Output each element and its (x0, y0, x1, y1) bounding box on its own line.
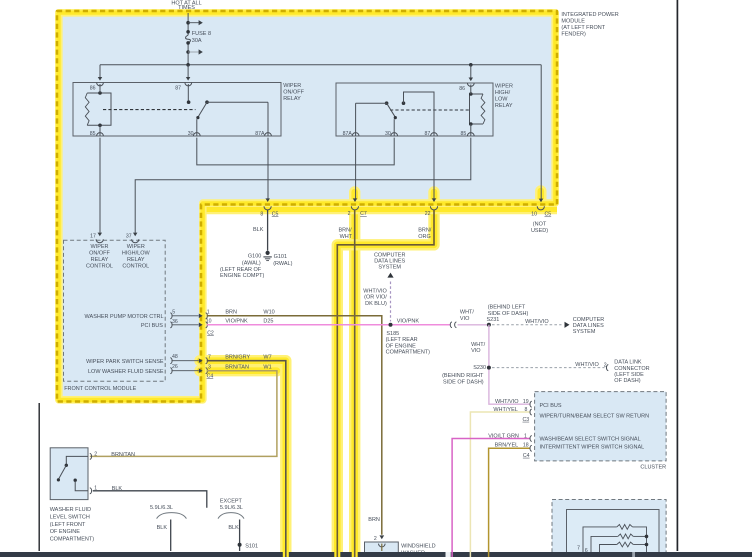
svg-text:5: 5 (172, 310, 175, 316)
ground G100/G101 (266, 251, 270, 255)
relay U2 coil (wiper high/low) (470, 94, 484, 124)
washer switch pin 1 connector (90, 488, 92, 494)
svg-text:85: 85 (461, 131, 467, 137)
multifunction switch outer dashed box (552, 500, 666, 557)
svg-text:WHT/: WHT/ (471, 342, 486, 348)
dashed wire S230 to data link connector (492, 367, 605, 369)
wire BRN/GRY W7 wiper park switch sense (207, 361, 286, 557)
relay U2 pin 30 wire (393, 119, 395, 136)
svg-text:RELAY: RELAY (495, 103, 513, 109)
highlight band BRN/ORG wire (337, 192, 434, 557)
wire BRN/ORG low speed (337, 210, 434, 557)
svg-text:WASHER FLUID: WASHER FLUID (50, 507, 91, 513)
highlight band BRN/GRY wire (200, 361, 286, 557)
svg-text:ON/OFF: ON/OFF (283, 89, 304, 95)
svg-text:2: 2 (374, 536, 377, 542)
highlight band not-used wire at pin 10 (535, 191, 546, 203)
wires crossing bottom bar (451, 550, 453, 557)
windshield washer pump box (365, 542, 399, 556)
svg-text:LEVEL SWITCH: LEVEL SWITCH (50, 514, 90, 520)
svg-text:WIPER: WIPER (90, 244, 108, 250)
svg-text:EXCEPT: EXCEPT (220, 499, 243, 505)
wire BRN W10 washer pump motor control (207, 316, 382, 535)
svg-text:DK BLU): DK BLU) (365, 301, 387, 307)
svg-text:W7: W7 (263, 355, 271, 361)
svg-text:30: 30 (188, 131, 194, 137)
resistor bus junction dots (645, 535, 649, 539)
svg-text:C2: C2 (207, 330, 214, 336)
wire BLK branch except 5.9L/6.3L (239, 520, 241, 552)
integrated power module IPM body (light blue L-shape) (57, 11, 557, 402)
wire WHT/VIO S231 to S230 to cluster pin19 (489, 325, 530, 404)
svg-text:FENDER): FENDER) (561, 32, 586, 38)
svg-text:8: 8 (260, 211, 263, 217)
splice S230 (487, 366, 491, 370)
svg-text:FRONT CONTROL MODULE: FRONT CONTROL MODULE (64, 386, 136, 392)
svg-text:(NOT: (NOT (533, 221, 547, 227)
wire relay2 pin87 to IPM pin22 (433, 138, 435, 199)
svg-text:TIMES: TIMES (178, 5, 195, 11)
relay U2 actuation dashed line (390, 109, 470, 111)
svg-text:(BEHIND RIGHT: (BEHIND RIGHT (442, 373, 484, 379)
wire BLK from washer switch (93, 491, 207, 508)
wire to not-used pin 10 (540, 65, 542, 199)
svg-text:PCI BUS: PCI BUS (141, 323, 163, 329)
svg-text:SYSTEM: SYSTEM (573, 329, 596, 335)
svg-text:S230: S230 (473, 365, 486, 371)
wire relay1 pin85 to FCM pin17 (99, 138, 101, 233)
svg-text:22: 22 (425, 211, 431, 217)
svg-text:BRN/TAN: BRN/TAN (111, 452, 135, 458)
svg-text:CONTROL: CONTROL (122, 263, 149, 269)
wire BRN/TAN W1 low washer fluid sense (90, 371, 277, 457)
FCM pin 48 connector (170, 358, 172, 364)
svg-text:8: 8 (525, 407, 528, 413)
svg-text:BRN/YEL: BRN/YEL (495, 443, 519, 449)
svg-text:S185: S185 (386, 331, 399, 337)
relay U1 actuation dashed line (103, 109, 196, 111)
wiper switch resistor R3 (600, 545, 617, 553)
hot at all times feed wire (187, 13, 189, 35)
relay U2 common-to-87A wire (356, 102, 387, 104)
svg-text:10: 10 (206, 319, 212, 325)
svg-text:COMPARTMENT): COMPARTMENT) (386, 350, 431, 356)
svg-text:BLK: BLK (228, 525, 239, 531)
svg-text:WIPER: WIPER (283, 83, 301, 89)
svg-text:ORG: ORG (418, 234, 431, 240)
svg-text:WHT/VIO: WHT/VIO (363, 289, 387, 295)
wiper high/low relay box (336, 83, 493, 136)
dashed wire S231 to computer data lines (right) (492, 324, 562, 326)
IPM boundary cup pin 1 (206, 313, 208, 319)
svg-text:86: 86 (90, 85, 96, 91)
svg-text:RELAY: RELAY (91, 257, 109, 263)
relay U1 common-to-87A wire (207, 101, 268, 103)
svg-text:30: 30 (385, 131, 391, 137)
svg-text:LOW WASHER FLUID SENSE: LOW WASHER FLUID SENSE (88, 369, 164, 375)
wire relay2 pin87A to IPM pin2 (355, 138, 357, 199)
svg-text:MODULE: MODULE (561, 19, 585, 25)
svg-text:18: 18 (523, 443, 529, 449)
svg-text:C5: C5 (545, 212, 552, 218)
cluster pin 18 cup (530, 445, 532, 451)
splice S101 (238, 543, 242, 547)
svg-text:WINDSHIELD: WINDSHIELD (401, 543, 436, 549)
svg-text:WIPER: WIPER (127, 244, 145, 250)
svg-text:C7: C7 (360, 211, 367, 217)
svg-text:87A: 87A (255, 131, 265, 137)
cluster pin 8 cup (530, 409, 532, 415)
svg-text:SYSTEM: SYSTEM (378, 264, 401, 270)
svg-text:ENGINE COMPT): ENGINE COMPT) (220, 273, 264, 279)
svg-text:OF ENGINE: OF ENGINE (386, 343, 417, 349)
diagram page left frame line (38, 403, 40, 551)
wire VIO/PNK D25 PCI bus (207, 324, 450, 326)
engine option brace except 5.9L/6.3L (218, 513, 244, 519)
wire BRN/YEL intermittent wiper switch signal (489, 448, 531, 557)
svg-text:VIO: VIO (471, 348, 481, 354)
svg-text:BRN: BRN (225, 310, 237, 316)
svg-text:D25: D25 (263, 319, 273, 325)
svg-text:19: 19 (523, 399, 529, 405)
svg-text:(AT LEFT FRONT: (AT LEFT FRONT (561, 25, 605, 31)
svg-text:WASH/BEAM SELECT SWITCH SIGNAL: WASH/BEAM SELECT SWITCH SIGNAL (540, 436, 641, 442)
svg-text:1: 1 (524, 433, 527, 439)
diagram bottom frame bar (0, 552, 752, 557)
highlight band BRN/WHT wire (349, 192, 360, 557)
branch arrow right lower (188, 51, 199, 53)
svg-text:2: 2 (604, 363, 607, 369)
dashed wire to computer data lines (upper) (390, 282, 392, 322)
wire relay1 pin30 to relay2 pin30 (197, 138, 394, 165)
svg-text:(AWAL): (AWAL) (242, 260, 261, 266)
relay U1 pin 87 wire and NC contact (187, 84, 189, 101)
svg-text:W1: W1 (263, 365, 271, 371)
FCM pin 37 bump (132, 239, 139, 243)
IPM pin 22 bump (430, 206, 437, 210)
svg-text:OF DASH): OF DASH) (614, 378, 640, 384)
svg-text:OF ENGINE: OF ENGINE (50, 529, 81, 535)
svg-text:87: 87 (175, 85, 181, 91)
inline connector on PCI bus (450, 322, 452, 328)
svg-text:3: 3 (208, 365, 211, 371)
svg-text:C3: C3 (523, 417, 530, 423)
svg-text:WHT/VIO: WHT/VIO (525, 319, 549, 325)
washer fluid level switch box (50, 448, 88, 500)
svg-text:VIO/PNK: VIO/PNK (397, 319, 420, 325)
svg-text:HIGH/LOW: HIGH/LOW (122, 251, 151, 257)
svg-text:7: 7 (577, 545, 580, 551)
svg-text:DATA LINES: DATA LINES (573, 323, 604, 329)
IPM boundary cup pin 10 (206, 322, 208, 328)
svg-text:BLK: BLK (253, 227, 264, 233)
cluster pin 19 cup (530, 401, 532, 407)
wiper on/off relay box (73, 83, 281, 137)
svg-text:WHT/: WHT/ (460, 310, 475, 316)
svg-text:BRN/: BRN/ (339, 227, 353, 233)
svg-text:87: 87 (425, 131, 431, 137)
svg-text:RELAY: RELAY (283, 96, 301, 102)
wire FCM pin5 to IPM boundary (172, 315, 199, 317)
relay U1 switch armature (205, 100, 209, 104)
relay U2 switch armature (385, 101, 389, 105)
svg-text:G101: G101 (274, 254, 287, 260)
svg-text:(BEHIND LEFT: (BEHIND LEFT (488, 305, 526, 311)
svg-text:C5: C5 (272, 211, 279, 217)
svg-text:G100: G100 (248, 254, 261, 260)
cluster dashed box (535, 392, 667, 461)
IPM pin 10 not used bump (537, 206, 544, 210)
svg-text:VIO/PNK: VIO/PNK (225, 319, 248, 325)
splice S231 (487, 323, 491, 327)
svg-text:6: 6 (585, 548, 588, 554)
svg-text:CLUSTER: CLUSTER (640, 465, 666, 471)
svg-text:INTERMITTENT WIPER SWITCH SIGN: INTERMITTENT WIPER SWITCH SIGNAL (540, 445, 645, 451)
svg-text:WIPER/TURN/BEAM SELECT SW RETU: WIPER/TURN/BEAM SELECT SW RETURN (540, 414, 650, 420)
highlight band BRN/TAN wire (horizontal run) (200, 365, 277, 376)
IPM pin 8 C5 bump (264, 206, 271, 210)
svg-text:10: 10 (531, 212, 537, 218)
relay U2 pin 85 bump (467, 133, 474, 136)
svg-text:5.9L/6.3L: 5.9L/6.3L (220, 505, 243, 511)
svg-text:WHT/VIO: WHT/VIO (495, 399, 519, 405)
svg-text:HIGH/: HIGH/ (495, 90, 511, 96)
svg-text:30A: 30A (192, 38, 202, 44)
relay U1 pin 85 bump (97, 133, 104, 136)
svg-text:2: 2 (348, 211, 351, 217)
svg-text:7: 7 (208, 355, 211, 361)
relay U1 pin 86 bump (97, 83, 104, 86)
wire WHT/VIO to S231 (458, 324, 489, 326)
svg-text:INTEGRATED POWER: INTEGRATED POWER (561, 12, 618, 18)
svg-text:5.9L/6.3L: 5.9L/6.3L (150, 505, 173, 511)
FCM pin 36 connector (170, 322, 172, 328)
wire relay1 pin87A to IPM pin8 (267, 138, 269, 199)
svg-text:(RWAL): (RWAL) (273, 261, 292, 267)
svg-text:86: 86 (459, 86, 465, 92)
svg-text:BLK: BLK (112, 486, 123, 492)
svg-text:36: 36 (172, 319, 178, 325)
svg-text:VIO/LT GRN: VIO/LT GRN (488, 433, 519, 439)
svg-text:BLK: BLK (157, 525, 168, 531)
wiper switch resistor R1 (583, 527, 617, 553)
engine option brace 5.9L/6.3L (157, 513, 187, 519)
svg-text:WHT/YEL: WHT/YEL (493, 407, 517, 413)
svg-text:1: 1 (94, 486, 97, 492)
washer fluid level switch contacts (66, 456, 88, 464)
junction dot above fuse (186, 21, 190, 25)
junction dot below fuse (186, 50, 190, 54)
svg-text:BRN: BRN (368, 517, 380, 523)
FCM pin 17 bump (96, 239, 103, 243)
svg-text:WHT: WHT (340, 234, 353, 240)
svg-text:FUSE 8: FUSE 8 (192, 31, 211, 37)
svg-text:WASHER PUMP MOTOR CTRL: WASHER PUMP MOTOR CTRL (85, 314, 164, 320)
IPM border glow (59, 13, 555, 400)
svg-text:LOW: LOW (495, 96, 508, 102)
wire WHT/YEL wiper/turn/beam select switch return (470, 412, 530, 557)
IPM pin 2 C7 bump (351, 206, 358, 210)
svg-text:2: 2 (94, 451, 97, 457)
svg-text:CONNECTOR: CONNECTOR (614, 366, 649, 372)
highlight bands crossing bottom bar (352, 550, 358, 557)
svg-text:WIPER PARK SWITCH SENSE: WIPER PARK SWITCH SENSE (86, 359, 164, 365)
svg-text:PCI BUS: PCI BUS (540, 403, 562, 409)
fuse 8 30A (186, 35, 191, 43)
svg-text:RELAY: RELAY (127, 257, 145, 263)
diagram page right frame line (676, 0, 678, 551)
bus wire from fuse to relays (100, 64, 541, 66)
IPM boundary cup pin 3 (206, 368, 208, 374)
svg-text:S231: S231 (487, 317, 500, 323)
FCM pin 26 connector (170, 368, 172, 374)
wire VIO/LT GRN wash/beam select switch signal (452, 439, 530, 557)
highlight band along IPM notch bottom (201, 206, 557, 214)
cluster pin 1 cup (530, 436, 532, 442)
data link connector cup (606, 365, 608, 371)
svg-text:C4: C4 (523, 453, 530, 459)
computer data lines arrow (upper) (387, 273, 393, 278)
svg-text:(LEFT FRONT: (LEFT FRONT (50, 522, 86, 528)
svg-text:CONTROL: CONTROL (86, 263, 113, 269)
svg-text:(OR VIO/: (OR VIO/ (364, 295, 387, 301)
svg-text:DATA LINK: DATA LINK (614, 360, 642, 366)
svg-text:48: 48 (172, 354, 178, 360)
relay U2 pin 87 hook wire (402, 101, 406, 105)
svg-text:(LEFT SIDE: (LEFT SIDE (614, 372, 644, 378)
branch arrow right upper (188, 22, 199, 24)
svg-text:BRN/GRY: BRN/GRY (225, 355, 250, 361)
IPM border dashed line (57, 11, 557, 402)
wire FCM pin48 to IPM boundary (172, 360, 199, 362)
wire FCM pin26 to IPM boundary (172, 370, 199, 372)
svg-text:BRN/TAN: BRN/TAN (225, 365, 249, 371)
wire relay2 pin85 to FCM pin37 (135, 138, 471, 233)
svg-text:BRN/: BRN/ (418, 227, 432, 233)
computer data lines arrow (right) (565, 322, 570, 328)
wire BRN/WHT high speed (354, 210, 356, 557)
wire FCM pin36 to IPM boundary (172, 324, 199, 326)
BLK ground wire from pin 8 (267, 210, 269, 251)
svg-text:ON/OFF: ON/OFF (89, 251, 110, 257)
svg-text:SIDE OF DASH): SIDE OF DASH) (488, 311, 529, 317)
svg-text:VIO: VIO (460, 316, 470, 322)
svg-text:SIDE OF DASH): SIDE OF DASH) (443, 379, 484, 385)
relay U2 pin 86 bump (467, 83, 474, 86)
svg-text:87A: 87A (343, 131, 353, 137)
wire BLK branch 5.9L/6.3L (170, 520, 172, 552)
svg-text:17: 17 (90, 233, 96, 239)
front control module dashed box (64, 240, 166, 381)
svg-text:(LEFT REAR: (LEFT REAR (386, 337, 418, 343)
svg-text:37: 37 (126, 233, 132, 239)
svg-text:85: 85 (90, 131, 96, 137)
IPM boundary cup pin 7 (206, 358, 208, 364)
svg-text:C4: C4 (207, 373, 214, 379)
washer pump pin 2 bump (379, 544, 386, 547)
relay U1 coil (wiper on/off) (87, 93, 111, 125)
svg-text:26: 26 (172, 364, 178, 370)
FCM pin 5 connector (170, 313, 172, 319)
relay U1 pin 30 wire (196, 119, 198, 136)
multifunction switch inner box (567, 510, 660, 553)
svg-text:WHT/VIO: WHT/VIO (575, 362, 599, 368)
svg-text:W10: W10 (263, 310, 274, 316)
svg-text:WIPER: WIPER (495, 83, 513, 89)
wiper switch resistor R2 (591, 536, 618, 552)
svg-text:COMPARTMENT): COMPARTMENT) (50, 537, 95, 543)
svg-text:S101: S101 (245, 543, 258, 549)
washer switch pin 2 connector (90, 454, 92, 460)
svg-text:1: 1 (207, 310, 210, 316)
svg-text:COMPUTER: COMPUTER (573, 317, 605, 323)
splice S185 (389, 323, 393, 327)
svg-text:USED): USED) (531, 228, 548, 234)
